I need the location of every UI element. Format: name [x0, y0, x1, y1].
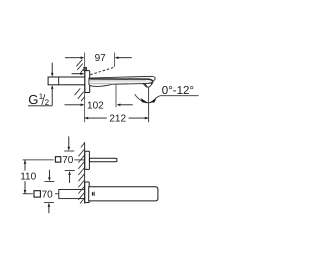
svg-text:110: 110 — [20, 171, 36, 182]
svg-text:102: 102 — [87, 100, 104, 111]
svg-text:G: G — [28, 92, 38, 107]
svg-text:70: 70 — [62, 155, 74, 166]
svg-text:212: 212 — [109, 114, 126, 125]
svg-text:70: 70 — [42, 190, 54, 201]
svg-text:97: 97 — [95, 53, 107, 64]
svg-text:0°-12°: 0°-12° — [162, 85, 194, 97]
